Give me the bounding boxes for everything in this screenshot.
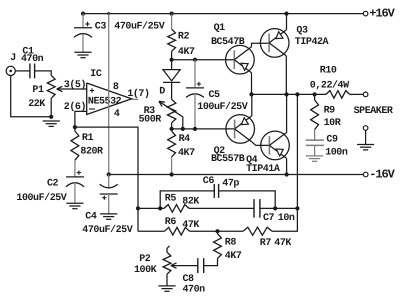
- label NE5532: [88, 96, 122, 107]
- resistor R9: [311, 94, 319, 140]
- svg-text:J: J: [10, 53, 16, 64]
- label R3 value: [139, 114, 162, 125]
- transistor Q3: [260, 29, 289, 58]
- svg-text:R7: R7: [260, 238, 272, 249]
- wire Q1 emitter down: [251, 73, 253, 95]
- label SPEAKER: [354, 106, 393, 117]
- node R8 top: [215, 229, 219, 233]
- resistor R7: [243, 227, 272, 235]
- label C9: [326, 135, 338, 146]
- node P1/jack ground junction: [49, 115, 53, 119]
- svg-text:C3: C3: [95, 22, 107, 33]
- terminal -16V: [363, 172, 368, 177]
- label C3: [95, 22, 107, 33]
- svg-text:BC547B: BC547B: [211, 37, 245, 48]
- label R7: [260, 238, 272, 249]
- wire Q2 emitter up: [251, 94, 253, 116]
- label R1: [82, 133, 94, 144]
- label R10: [320, 66, 337, 77]
- capacitor C6: [160, 184, 275, 209]
- node R2/D junction: [170, 58, 174, 62]
- label C6: [203, 176, 215, 187]
- svg-text:4K7: 4K7: [178, 47, 195, 58]
- node driver emitters: [249, 92, 253, 96]
- wire Q4 emitter to -rail: [286, 158, 288, 174]
- label P2 value: [134, 265, 157, 276]
- wire Q3 emitter to rail: [286, 14, 288, 30]
- connector J: [6, 66, 15, 75]
- capacitor C4: [100, 175, 118, 214]
- resistor R2: [168, 14, 176, 60]
- svg-text:4: 4: [114, 109, 120, 120]
- resistor R4: [168, 131, 176, 174]
- node R2/rail junction: [170, 12, 174, 16]
- node C4/rail junction: [107, 172, 111, 176]
- svg-text:8: 8: [113, 82, 119, 93]
- node C6 loop left: [158, 206, 162, 210]
- ground C4: [100, 214, 117, 219]
- svg-text:4K7: 4K7: [225, 251, 242, 262]
- label Q1 type: [211, 37, 245, 48]
- diode D: [163, 60, 180, 100]
- label C4 value: [82, 224, 132, 236]
- svg-text:470n: 470n: [183, 285, 206, 296]
- label Q4: [246, 155, 258, 166]
- label R6: [165, 217, 177, 228]
- node R10/R9: [313, 92, 317, 96]
- label C9 value: [325, 148, 348, 159]
- node inverting input: [73, 125, 77, 129]
- label P2: [139, 254, 151, 265]
- resistor R1: [71, 127, 79, 160]
- node R3 bottom: [170, 127, 174, 131]
- capacitor C1: [30, 64, 35, 79]
- wire Q1 collector to Q3 base: [252, 43, 270, 47]
- label -16V: [369, 168, 395, 182]
- label R9 value: [324, 118, 341, 129]
- label Q3: [296, 25, 308, 36]
- label R4: [179, 134, 191, 145]
- label R6 value: [182, 220, 199, 231]
- svg-text:4K7: 4K7: [178, 148, 195, 159]
- svg-text:R2: R2: [178, 32, 190, 43]
- svg-text:C4: C4: [85, 211, 97, 222]
- transistor Q2: [226, 115, 255, 144]
- svg-text:100uF/25V: 100uF/25V: [197, 101, 247, 113]
- ground C3: [74, 52, 91, 57]
- svg-text:R6: R6: [165, 217, 177, 228]
- terminal speaker -: [363, 126, 368, 131]
- node feedback column row junction: [295, 206, 299, 210]
- svg-text:R1: R1: [82, 133, 94, 144]
- node C6 loop right: [273, 206, 277, 210]
- transistor Q4: [261, 131, 290, 160]
- label pin 4: [114, 109, 120, 120]
- wire R6 row left: [138, 230, 165, 232]
- label Q2: [214, 146, 226, 157]
- svg-text:100uF/25V: 100uF/25V: [16, 192, 66, 204]
- node Q3 emitter/rail junction: [284, 12, 288, 16]
- node R4/rail junction: [170, 172, 174, 176]
- ground input: [43, 121, 60, 126]
- node IC pin8/rail junction: [107, 12, 110, 15]
- svg-text:47K: 47K: [274, 238, 291, 249]
- capacitor C5: [186, 60, 204, 129]
- svg-text:IC: IC: [90, 69, 102, 80]
- svg-text:TIP41A: TIP41A: [246, 164, 280, 175]
- svg-text:SPEAKER: SPEAKER: [354, 106, 393, 117]
- svg-text:47p: 47p: [222, 178, 239, 189]
- label R4 value: [178, 148, 195, 159]
- node C3/rail junction: [81, 12, 85, 16]
- svg-text:3(5): 3(5): [64, 79, 86, 91]
- wire R5 row left: [138, 207, 164, 209]
- label Q1: [214, 23, 226, 34]
- label P1 value: [28, 99, 45, 110]
- wire +16V rail: [83, 13, 363, 15]
- capacitor C7: [254, 199, 260, 218]
- label IC: [90, 69, 102, 80]
- wire inverting input: [75, 111, 87, 127]
- node feedback tap: [295, 92, 299, 96]
- label R5: [165, 193, 177, 204]
- op-amp IC NE5532: [87, 83, 132, 115]
- wire -16V rail: [109, 174, 364, 176]
- capacitor C9: [306, 140, 324, 156]
- wire speaker return: [365, 130, 367, 144]
- label R10 value: [310, 80, 349, 92]
- svg-text:R10: R10: [320, 66, 337, 77]
- svg-text:820R: 820R: [80, 147, 103, 158]
- wire inverting node to feedback: [75, 127, 138, 231]
- wire C7 to feedback column: [260, 207, 298, 209]
- resistor R8: [214, 231, 222, 258]
- svg-text:C2: C2: [47, 179, 59, 190]
- node R3 wiper junction: [181, 127, 185, 131]
- wire Q4 collector up: [286, 94, 288, 132]
- svg-text:10R: 10R: [324, 118, 341, 129]
- label R8 value: [225, 251, 242, 262]
- svg-text:470uF/25V: 470uF/25V: [114, 21, 164, 33]
- node Q4 emitter/rail junction: [285, 172, 289, 176]
- label +16V: [369, 7, 395, 21]
- wire jack ground run: [11, 76, 52, 117]
- label pin 8: [113, 82, 119, 93]
- svg-text:NE5532: NE5532: [88, 96, 122, 107]
- label C3 value: [114, 21, 164, 33]
- svg-text:470uF/25V: 470uF/25V: [82, 224, 132, 236]
- label R8: [225, 238, 237, 249]
- label C7 value: [278, 213, 295, 224]
- wire P2 wiper to C8: [171, 263, 198, 268]
- wire op-amp output stub: [132, 98, 139, 100]
- ground speaker: [357, 145, 374, 150]
- ground C2: [66, 203, 83, 208]
- wire Q2 collector to Q4 base: [252, 142, 270, 146]
- label Q4 type: [246, 164, 280, 175]
- wire R5 to C7: [189, 207, 254, 209]
- terminal speaker +: [363, 92, 368, 97]
- svg-text:Q3: Q3: [296, 25, 308, 36]
- transistor Q1: [226, 45, 255, 74]
- svg-text:+16V: +16V: [369, 7, 395, 21]
- wire output feedback column: [296, 94, 298, 208]
- svg-text:P2: P2: [139, 254, 151, 265]
- potentiometer R3: [167, 99, 175, 129]
- label pin 3(5): [64, 79, 86, 91]
- wire R6 to R7: [190, 230, 244, 232]
- svg-text:D: D: [159, 87, 165, 98]
- wire bias bottom row: [172, 128, 235, 130]
- svg-text:R5: R5: [165, 193, 177, 204]
- svg-text:R4: R4: [179, 134, 191, 145]
- svg-text:500R: 500R: [139, 114, 162, 125]
- svg-text:C7: C7: [263, 213, 275, 224]
- node feedback/R5 junction: [136, 206, 140, 210]
- wire P1 bottom: [50, 98, 52, 117]
- potentiometer P1: [47, 75, 55, 98]
- wire jack to C1: [15, 70, 30, 72]
- label R2 value: [178, 47, 195, 58]
- label C1 value: [21, 54, 44, 65]
- svg-text:R8: R8: [225, 238, 237, 249]
- capacitor C3: [74, 14, 92, 53]
- wire R8 to C8: [204, 259, 218, 266]
- label R1 value: [80, 147, 103, 158]
- svg-text:C5: C5: [209, 90, 221, 101]
- wire feedback column to R7: [272, 208, 297, 231]
- label R7 value: [274, 238, 291, 249]
- svg-text:0,22/4W: 0,22/4W: [310, 80, 349, 92]
- label C2: [47, 179, 59, 190]
- label C4: [85, 211, 97, 222]
- label C8 value: [183, 285, 206, 296]
- resistor R5: [164, 205, 189, 213]
- ground C9: [306, 156, 323, 161]
- svg-text:TIP42A: TIP42A: [295, 37, 329, 48]
- node output collectors: [284, 92, 288, 96]
- wire bias row to Q1 base: [172, 59, 235, 61]
- potentiometer P2: [163, 246, 171, 286]
- svg-text:BC557B: BC557B: [211, 154, 245, 165]
- svg-text:R9: R9: [324, 106, 336, 117]
- label C6 value: [222, 178, 239, 189]
- svg-text:82K: 82K: [182, 196, 199, 207]
- svg-text:47K: 47K: [182, 220, 199, 231]
- label C5: [209, 90, 221, 101]
- svg-text:100K: 100K: [134, 265, 157, 276]
- label P1: [32, 85, 44, 96]
- svg-text:C8: C8: [183, 274, 195, 285]
- svg-text:22K: 22K: [28, 99, 45, 110]
- svg-text:C9: C9: [326, 135, 338, 146]
- svg-text:10n: 10n: [278, 213, 295, 224]
- label pin 2(6): [64, 101, 86, 113]
- label C5 value: [197, 101, 247, 113]
- label R2: [178, 32, 190, 43]
- label Q3 type: [295, 37, 329, 48]
- label Q2 type: [211, 154, 245, 165]
- wire Q3 collector down: [285, 56, 287, 95]
- label R9: [324, 106, 336, 117]
- label J: [10, 53, 16, 64]
- label R5 value: [182, 196, 199, 207]
- label R3: [144, 106, 156, 117]
- svg-text:100n: 100n: [325, 148, 348, 159]
- capacitor C8: [198, 258, 204, 273]
- label pin 1(7): [127, 88, 149, 100]
- wire output row: [252, 93, 327, 95]
- wire R3 wiper: [159, 101, 183, 129]
- node C5 top junction: [193, 58, 197, 62]
- resistor R6: [165, 227, 190, 235]
- wire P1 wiper to op-amp +: [57, 86, 87, 91]
- svg-text:P1: P1: [32, 85, 44, 96]
- label C2 value: [16, 192, 66, 204]
- svg-text:1(7): 1(7): [127, 88, 149, 100]
- ground P2: [158, 286, 175, 291]
- svg-text:Q1: Q1: [214, 23, 226, 34]
- label C7: [263, 213, 275, 224]
- svg-text:470n: 470n: [21, 54, 44, 65]
- label C8: [183, 274, 195, 285]
- resistor R10: [326, 91, 363, 99]
- wire IC power pins 8-4: [108, 14, 110, 175]
- label D: [159, 87, 165, 98]
- svg-text:-16V: -16V: [369, 168, 395, 182]
- svg-text:C6: C6: [203, 176, 215, 187]
- wire C1 to P1: [35, 71, 52, 76]
- capacitor C2: [66, 160, 84, 203]
- node C5 bottom junction: [193, 127, 197, 131]
- terminal +16V: [363, 11, 368, 16]
- label C1: [22, 47, 34, 58]
